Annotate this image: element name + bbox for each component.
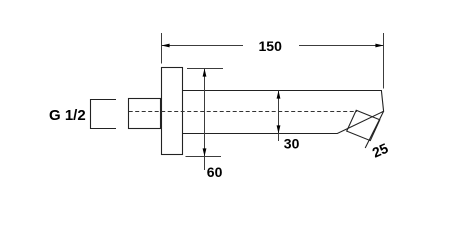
wall flange [162,68,183,155]
arm body outline [183,91,384,134]
svg-text:150: 150 [259,38,283,54]
svg-text:25: 25 [370,140,391,161]
svg-text:G 1/2: G 1/2 [49,107,86,124]
dim 60: down arrowhead [203,148,207,156]
dim 150: right extension line [383,33,385,89]
inlet stub [129,99,161,129]
dim 30: dimension line [278,91,280,142]
dim 150: left extension line [161,33,163,64]
dim 60: dimension line [204,69,206,171]
svg-text:30: 30 [284,136,300,152]
nozzle leader line [365,111,383,148]
dim 60: up arrowhead [203,69,207,77]
dim 60: bottom extension line [186,156,222,158]
dim 150: dimension line left segment [162,45,244,47]
thread callout bracket (G 1/2) [91,100,117,129]
dim 150: left arrowhead [162,44,170,48]
dim 150: dimension line right segment [299,45,384,47]
dim 60: top extension line [187,68,223,70]
dim 30: up arrowhead [277,91,281,99]
dim 150: right arrowhead [375,44,383,48]
dim 30: down arrowhead [277,125,281,133]
svg-text:60: 60 [207,164,223,180]
outlet nozzle (rotated rectangle) [347,110,380,140]
centerline (dashed) [129,111,357,113]
